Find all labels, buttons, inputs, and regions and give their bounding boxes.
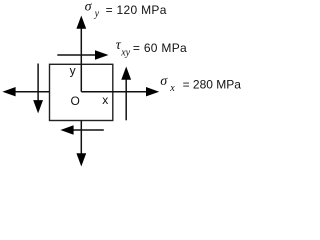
bottom face shear arrow left [60, 125, 103, 134]
label sigma_x = 280 MPa [160, 74, 241, 94]
svg-text:y: y [70, 64, 76, 78]
sigma_x left arrow [2, 87, 49, 96]
svg-text:y: y [94, 9, 100, 20]
left face shear arrow down [33, 64, 43, 114]
y axis line with sigma_y top arrow [76, 16, 86, 92]
x axis line with sigma_x right arrow [81, 87, 159, 96]
tau_xy top arrow [57, 50, 108, 59]
stress element square [50, 64, 113, 120]
svg-text:σ: σ [160, 74, 168, 89]
svg-text:= 280 MPa: = 280 MPa [183, 78, 242, 92]
svg-text:σ: σ [85, 0, 93, 14]
svg-text:x: x [102, 93, 108, 107]
svg-text:O: O [71, 94, 81, 108]
svg-text:xy: xy [120, 48, 130, 59]
svg-text:x: x [169, 83, 175, 94]
svg-text:= 60 MPa: = 60 MPa [133, 41, 187, 55]
label sigma_y = 120 MPa [85, 0, 167, 20]
svg-text:= 120 MPa: = 120 MPa [106, 3, 167, 17]
label tau_xy = 60 MPa [116, 38, 187, 58]
sigma_y bottom arrow down [76, 121, 86, 167]
right face shear arrow up [121, 67, 131, 121]
